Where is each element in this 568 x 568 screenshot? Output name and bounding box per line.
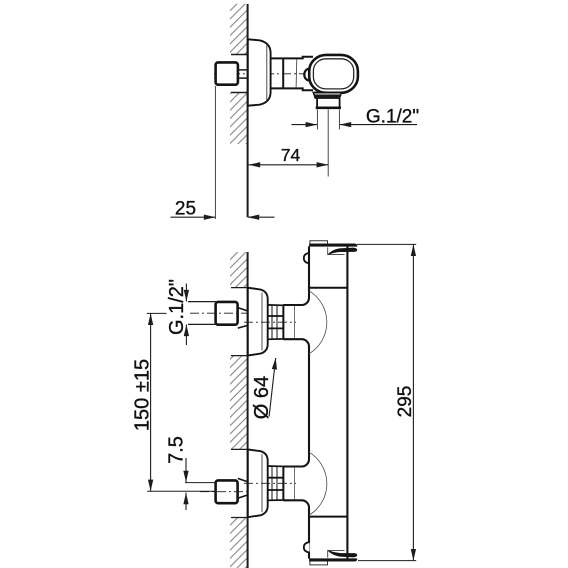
svg-text:150 ±15: 150 ±15: [132, 359, 154, 431]
lower housing left edge: [282, 467, 284, 501]
arrowhead right at outlet center: [317, 162, 329, 167]
upper union nut: [268, 305, 284, 339]
bar right edge: [346, 246, 348, 558]
upper mixer center line: [244, 321, 296, 323]
wall line: [247, 4, 249, 217]
upper flange: [248, 288, 268, 356]
bar top cap thick line: [309, 244, 357, 247]
svg-text:G.1/2": G.1/2": [166, 279, 188, 335]
valve body: [271, 57, 313, 90]
hatch gap boundary line bottom: [231, 92, 248, 94]
arrowhead up at cap top: [411, 244, 416, 256]
svg-text:74: 74: [281, 145, 301, 165]
lower union nut: [268, 466, 284, 500]
lower eccentric taper: [238, 478, 248, 498]
bar bottom cap step: [310, 561, 328, 565]
dimension 74 line: [249, 164, 329, 166]
arrowhead left at wall: [249, 162, 261, 167]
dimension G.1/2 top: right tail: [340, 124, 417, 126]
dimension 295: extension line bottom: [358, 560, 416, 562]
outlet extension line left: [316, 110, 318, 130]
bar top clip crescent: [328, 248, 357, 255]
upper eccentric taper: [238, 308, 248, 329]
dimension G.1/2 lower: upper shaft: [185, 284, 187, 302]
handle knob inner ellipse: [313, 59, 353, 89]
svg-text:G.1/2": G.1/2": [366, 106, 419, 127]
upper housing left edge: [282, 305, 284, 340]
lower union ribs: [272, 466, 277, 500]
arrowhead left-pointing at outlet right edge: [340, 122, 352, 127]
upper flange face line: [261, 293, 263, 351]
arrowhead down at bottom: [148, 480, 153, 492]
outlet pipe: [317, 98, 340, 107]
dimension 25: left tail: [171, 216, 216, 218]
wall hatch segment B: [230, 356, 247, 450]
flange face line: [266, 44, 268, 101]
wall hatch segment C: [230, 518, 247, 568]
top left button bump: [304, 253, 310, 263]
bar left edge (tube): [283, 246, 309, 558]
dimension G.1/2 lower: lower shaft: [185, 325, 187, 346]
bottom clip underline: [328, 550, 345, 557]
arrowhead up at flange bottom: [272, 358, 277, 370]
center line (dash-dot) of valve: [214, 73, 306, 75]
nut face extension line: [214, 86, 216, 219]
lower housing inner line: [294, 467, 296, 500]
upper supply nut: [216, 302, 238, 325]
arrowhead down at mixer line: [183, 471, 188, 483]
dimension 150 line: [150, 313, 152, 491]
lower housing dome arc: [309, 452, 327, 515]
dimension 25: right tail: [248, 216, 275, 218]
lower flange: [248, 449, 268, 517]
wall hatch segment A: [230, 252, 247, 288]
outlet center line: [327, 110, 329, 177]
dimension 7.5: lower shaft: [185, 493, 187, 510]
wall hatch upper segment: [230, 4, 247, 55]
upper union ribs: [272, 305, 277, 339]
dimension 295: extension line top: [357, 243, 416, 245]
upper housing dome arc: [309, 291, 327, 354]
dimension 7.5: upper shaft: [185, 458, 187, 482]
outlet extension line right: [338, 110, 340, 130]
lower supply center line: [200, 491, 248, 493]
outlet bottom edge: [316, 107, 341, 110]
svg-text:7.5: 7.5: [166, 436, 188, 464]
wall flange (escutcheon): [248, 39, 271, 105]
arrowhead left-pointing at wall line: [248, 215, 260, 220]
collar thread lines: [314, 93, 341, 95]
arrowhead right-pointing at nut face line: [204, 215, 216, 220]
bar joint line top: [309, 287, 347, 289]
arrowhead up at supply line: [183, 493, 188, 505]
upper supply pipe stub: [188, 302, 216, 325]
lower supply nut: [216, 480, 238, 503]
dimension 7.5: extension line: [185, 482, 216, 484]
bar bottom clip crescent: [328, 550, 357, 557]
arrowhead down at pipe top: [184, 290, 189, 302]
dimension G.1/2 top: left tail: [292, 124, 318, 126]
supply stub pipe: [238, 70, 248, 78]
hatch boundary lines lower gap: [231, 449, 248, 517]
supply nut: [216, 62, 238, 84]
bar bottom cap thick line: [309, 559, 357, 562]
lower mixer center line: [244, 482, 296, 484]
svg-text:25: 25: [175, 199, 196, 220]
arrowhead down at cap bottom: [411, 549, 416, 561]
wall hatch lower segment: [230, 93, 247, 145]
temperature button nub: [304, 69, 314, 81]
bottom left button bump: [304, 542, 310, 552]
dimension 150: extension line top: [147, 312, 167, 314]
top clip underline: [328, 247, 345, 254]
svg-text:295: 295: [395, 386, 416, 418]
arrowhead right-pointing at outlet left edge: [306, 122, 318, 127]
body joint line 2: [295, 59, 298, 88]
arrowhead up at pipe bottom: [184, 325, 189, 337]
dimension 295 line: [412, 244, 414, 560]
bar joint line bottom: [309, 516, 347, 518]
diameter 64 leader line: [269, 358, 276, 417]
handle knob outer ellipse: [309, 55, 358, 93]
outlet collar: [313, 92, 341, 98]
body joint line 1: [282, 58, 284, 88]
upper housing inner line: [294, 306, 296, 339]
upper supply center line: [190, 312, 248, 314]
bar top cap step: [310, 241, 328, 244]
dimension 150: extension line bottom: [147, 490, 216, 492]
wall line lower: [247, 252, 249, 568]
hatch gap boundary line top: [231, 54, 248, 56]
lower flange face line: [261, 454, 263, 512]
hatch boundary lines upper gap: [231, 288, 248, 356]
arrowhead up at top: [148, 313, 153, 325]
svg-text:Ø 64: Ø 64: [251, 376, 273, 419]
